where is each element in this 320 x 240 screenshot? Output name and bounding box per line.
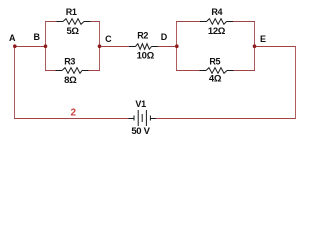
wire box1 right vertical (through node C) — [99, 22, 101, 72]
wire box1 bottom branch left — [45, 70, 56, 72]
svg-text:10Ω: 10Ω — [137, 51, 155, 62]
svg-text:R1: R1 — [66, 7, 77, 17]
wire right edge vertical — [295, 46, 297, 119]
resistor R4 — [200, 19, 233, 25]
wire box2 top branch right — [233, 21, 255, 23]
svg-text:8Ω: 8Ω — [64, 75, 77, 86]
wire box1 left vertical (through node B) — [45, 22, 47, 72]
svg-text:2: 2 — [71, 108, 77, 119]
battery V1 — [129, 110, 157, 126]
svg-text:R2: R2 — [137, 31, 148, 41]
wire bottom right (battery to right edge) — [156, 118, 296, 120]
resistor R1 — [57, 19, 91, 25]
node C junction dot — [98, 44, 102, 48]
svg-text:B: B — [34, 32, 41, 42]
resistor R2 — [129, 44, 158, 50]
wire A to B (main top wire) — [15, 46, 46, 48]
svg-text:R5: R5 — [209, 57, 220, 67]
wire box2 top branch left — [176, 21, 200, 23]
svg-text:4Ω: 4Ω — [209, 74, 222, 85]
resistor R5 — [200, 68, 234, 74]
wire box2 bottom branch right — [234, 70, 256, 72]
wire E to right edge — [255, 46, 296, 48]
wire C to R2 — [100, 46, 130, 48]
resistor R3 — [56, 68, 89, 74]
wire box1 top branch right — [91, 21, 101, 23]
wire box1 bottom branch right — [89, 70, 101, 72]
svg-text:50 V: 50 V — [131, 126, 150, 137]
node B junction dot — [44, 44, 48, 48]
svg-text:5Ω: 5Ω — [66, 26, 79, 37]
wire box2 right vertical (through node E) — [254, 22, 256, 72]
svg-text:V1: V1 — [135, 99, 146, 109]
node E junction dot — [253, 44, 257, 48]
wire box1 top branch left — [45, 21, 57, 23]
wire box2 left vertical (through node D) — [176, 22, 178, 72]
svg-text:R3: R3 — [64, 57, 75, 67]
svg-text:12Ω: 12Ω — [208, 26, 226, 37]
wire R2 to D — [158, 46, 177, 48]
svg-text:E: E — [260, 34, 266, 44]
wire bottom left (to battery) — [14, 118, 129, 120]
svg-text:A: A — [9, 33, 16, 43]
node A junction dot — [13, 44, 17, 48]
wire box2 bottom branch left — [176, 70, 200, 72]
svg-text:C: C — [105, 34, 112, 44]
svg-text:D: D — [161, 32, 168, 42]
node D junction dot — [175, 44, 179, 48]
wire left edge vertical (A down to bottom) — [14, 46, 16, 119]
svg-text:R4: R4 — [211, 7, 222, 17]
